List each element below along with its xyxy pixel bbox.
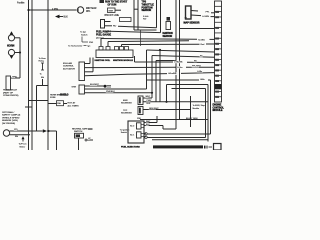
svg-text:BLK/LT GRN: BLK/LT GRN xyxy=(186,118,198,120)
svg-text:Blu: Blu xyxy=(200,56,203,58)
svg-text:HORN: HORN xyxy=(7,44,15,47)
svg-text:POSITION: POSITION xyxy=(142,7,153,9)
svg-text:Lt GRN: Lt GRN xyxy=(202,15,209,18)
svg-text:Meter: Meter xyxy=(20,145,26,148)
svg-text:ENGINE: ENGINE xyxy=(213,105,222,107)
svg-text:SOLENOID: SOLENOID xyxy=(121,103,132,105)
svg-text:OPTIONAL /: OPTIONAL / xyxy=(2,111,15,114)
svg-text:Ign: Ign xyxy=(88,45,91,47)
svg-text:EGR: EGR xyxy=(109,10,114,12)
svg-text:5-Volt: 5-Volt xyxy=(143,15,149,18)
svg-text:HORN RELAY: HORN RELAY xyxy=(3,89,18,92)
svg-text:Blk: Blk xyxy=(194,61,197,63)
svg-text:IGNITION: IGNITION xyxy=(163,33,174,35)
svg-text:Switch: Switch xyxy=(121,131,128,134)
svg-text:SENSOR: SENSOR xyxy=(163,36,173,38)
svg-text:BLK: BLK xyxy=(147,103,151,105)
svg-text:SOLENOID: SOLENOID xyxy=(121,113,132,115)
svg-text:VEHICLE SPEED: VEHICLE SPEED xyxy=(2,117,20,119)
svg-text:To Ign: To Ign xyxy=(80,32,87,34)
svg-text:TPS: TPS xyxy=(142,1,147,4)
svg-text:FUEL INJECTORS: FUEL INJECTORS xyxy=(121,147,140,149)
svg-text:MAP SENSOR: MAP SENSOR xyxy=(184,22,200,25)
svg-text:To Ignition: To Ignition xyxy=(120,128,130,131)
svg-text:To Horn: To Horn xyxy=(39,57,47,60)
svg-text:EGR: EGR xyxy=(123,100,128,102)
svg-text:(W/ CRUISE): (W/ CRUISE) xyxy=(2,123,15,125)
svg-text:NEUTRAL SAFE: NEUTRAL SAFE xyxy=(72,127,88,130)
svg-text:B/W R/T LINE: B/W R/T LINE xyxy=(105,15,120,17)
svg-text:SAFETY LAMP (2): SAFETY LAMP (2) xyxy=(2,114,21,117)
svg-text:PNK/: PNK/ xyxy=(147,100,152,102)
svg-text:To Tachometer: To Tachometer xyxy=(68,44,83,47)
svg-text:GRN: GRN xyxy=(12,76,17,78)
svg-text:Lt Grn: Lt Grn xyxy=(177,66,183,69)
svg-text:RPL: RPL xyxy=(86,11,91,13)
svg-text:FUEL PUMP /: FUEL PUMP / xyxy=(96,32,111,34)
svg-text:2 5PA: 2 5PA xyxy=(52,7,58,10)
svg-text:SENSOR: SENSOR xyxy=(142,10,152,12)
svg-text:SENSOR (VSS): SENSOR (VSS) xyxy=(2,120,18,122)
svg-text:IGNITION COIL: IGNITION COIL xyxy=(95,60,111,62)
svg-text:OF RUN: OF RUN xyxy=(108,5,117,7)
svg-text:PNK: PNK xyxy=(89,42,94,44)
svg-text:IDLE AIR: IDLE AIR xyxy=(63,62,72,65)
svg-text:GRN: GRN xyxy=(72,87,77,89)
svg-text:GRN WHT: GRN WHT xyxy=(149,108,159,110)
svg-text:Fusible: Fusible xyxy=(17,2,25,4)
svg-text:RU: RU xyxy=(113,26,117,28)
svg-text:Ref: Ref xyxy=(143,19,147,21)
svg-text:BLK: BLK xyxy=(64,17,69,19)
svg-text:Lt Blu: Lt Blu xyxy=(197,70,202,73)
svg-text:IGNITION MODULE: IGNITION MODULE xyxy=(113,60,133,62)
svg-text:CONTROL: CONTROL xyxy=(63,66,74,68)
svg-text:FUEL GAUGE: FUEL GAUGE xyxy=(96,34,111,37)
svg-text:PPL/WHT: PPL/WHT xyxy=(192,66,202,68)
svg-text:Tan/Blk: Tan/Blk xyxy=(198,39,206,41)
svg-text:Module: Module xyxy=(193,108,200,110)
svg-text:PNK/BLK: PNK/BLK xyxy=(106,91,115,93)
svg-text:ALL TIMES: ALL TIMES xyxy=(68,104,80,107)
svg-text:RUN TO THE START: RUN TO THE START xyxy=(105,1,128,4)
svg-text:To EGR, Stop: To EGR, Stop xyxy=(193,104,206,107)
svg-text:SWITCH: SWITCH xyxy=(74,131,83,133)
svg-text:SHIELD: SHIELD xyxy=(60,95,69,97)
svg-text:BLK/WHT: BLK/WHT xyxy=(90,84,100,86)
svg-text:To/From: To/From xyxy=(19,143,27,146)
svg-text:CONTROL: CONTROL xyxy=(213,107,225,109)
svg-text:WHT: WHT xyxy=(146,96,151,98)
svg-text:ACTUATOR: ACTUATOR xyxy=(63,67,75,70)
svg-text:TCC: TCC xyxy=(123,110,128,112)
svg-text:Switch: Switch xyxy=(81,33,88,36)
svg-text:CONN CENTR): CONN CENTR) xyxy=(3,95,19,97)
svg-text:HOT AT: HOT AT xyxy=(68,102,76,105)
svg-text:LtGrn/Blk: LtGrn/Blk xyxy=(168,72,176,75)
svg-text:Lt Blu/Blk: Lt Blu/Blk xyxy=(174,61,182,64)
svg-text:FUSE: FUSE xyxy=(50,97,56,99)
svg-text:(PART OF: (PART OF xyxy=(3,91,14,94)
svg-text:MIDYEAR: MIDYEAR xyxy=(86,7,97,10)
svg-text:MODULE: MODULE xyxy=(213,110,223,112)
svg-text:THROTTLE: THROTTLE xyxy=(142,5,155,7)
svg-text:LtBlu: LtBlu xyxy=(200,78,205,81)
